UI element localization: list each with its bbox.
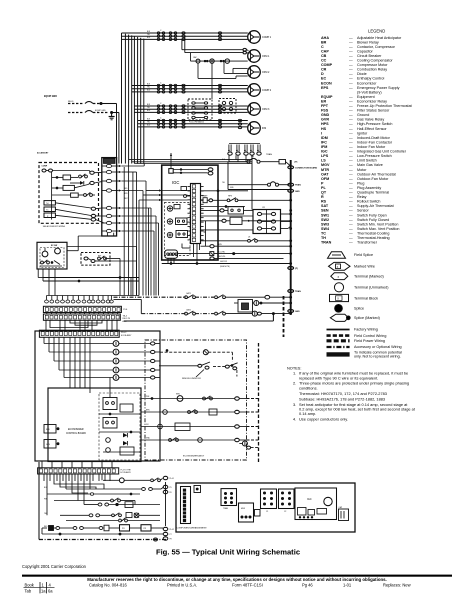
wire OFM2 route c <box>233 68 248 73</box>
plug strip PL6-2 <box>39 330 132 337</box>
svg-text:QT: QT <box>321 191 327 195</box>
svg-text:4: 4 <box>49 582 52 587</box>
svg-text:BRN: BRN <box>146 409 150 411</box>
marked terminal <box>210 59 214 63</box>
svg-text:EQUIP GND: EQUIP GND <box>95 110 106 112</box>
svg-text:Switch Min. Vent Position: Switch Min. Vent Position <box>357 222 398 226</box>
bottom route 9 <box>101 474 103 480</box>
assy row 398 <box>141 394 235 402</box>
svg-text:Economizer: Economizer <box>357 81 377 85</box>
capacitor chain <box>191 53 248 62</box>
svg-text:—: — <box>349 109 353 113</box>
wire FPT out2 <box>95 247 137 296</box>
terminal block TB1 <box>102 158 117 236</box>
svg-text:Sensor: Sensor <box>357 209 369 213</box>
legend accessory wiring swatch <box>327 346 350 348</box>
svg-text:Supply-Air Thermostat: Supply-Air Thermostat <box>357 204 394 208</box>
bottom left rail <box>38 462 40 540</box>
sensor SPS <box>44 425 59 434</box>
EC contacts <box>40 260 62 266</box>
wire OFM2 route a <box>198 63 248 78</box>
svg-text:Contactor, Compressor: Contactor, Compressor <box>357 45 396 49</box>
assy label <box>183 455 205 458</box>
figure title <box>156 548 300 557</box>
svg-text:TRAN: TRAN <box>266 153 272 156</box>
svg-text:C: C <box>160 117 162 119</box>
svg-text:—: — <box>349 241 353 245</box>
board wires <box>90 378 140 453</box>
svg-text:BLU: BLU <box>147 110 151 112</box>
wire OAT box <box>234 301 291 306</box>
svg-text:PR: PR <box>122 528 125 530</box>
contactor C2 block <box>279 489 295 513</box>
controller IGC box <box>162 165 218 260</box>
legend factory wiring swatch <box>327 329 350 331</box>
svg-text:Replaces: New: Replaces: New <box>383 582 411 587</box>
svg-text:P6: P6 <box>170 492 172 494</box>
wire h1 drop <box>131 278 139 296</box>
svg-text:Terminal Block: Terminal Block <box>354 296 378 300</box>
svg-text:ECONOMIZER: ECONOMIZER <box>68 429 84 431</box>
ground GND <box>109 113 115 120</box>
routing wire Cr <box>50 320 88 327</box>
svg-text:LPS: LPS <box>321 154 329 158</box>
footer block <box>22 575 452 594</box>
motor OFM 3 <box>248 103 270 116</box>
svg-text:GND: GND <box>295 311 300 313</box>
svg-text:CR: CR <box>262 207 265 209</box>
switch SW1 <box>159 362 210 369</box>
svg-text:—: — <box>349 127 353 131</box>
wire to connection board <box>286 162 291 166</box>
bottom v42 <box>41 528 43 534</box>
svg-text:Plug Assembly: Plug Assembly <box>357 186 381 190</box>
svg-text:EC: EC <box>321 77 326 81</box>
svg-text:—: — <box>349 40 353 44</box>
svg-text:AHA: AHA <box>321 36 329 40</box>
assy row 427 <box>141 423 235 431</box>
capacitor block <box>194 486 201 493</box>
splice on L2 <box>111 111 113 113</box>
terminal OAT1 <box>265 295 291 299</box>
svg-text:1.: 1. <box>293 371 296 376</box>
wires/contactor to COMP 2 <box>132 82 248 93</box>
plug PL12 <box>219 99 236 114</box>
terminals at IFM <box>238 119 241 128</box>
bottom row 534 <box>42 533 163 535</box>
svg-text:(SEE NOTE): (SEE NOTE) <box>220 266 230 268</box>
svg-text:—: — <box>349 140 353 144</box>
svg-text:Main Gas Valve: Main Gas Valve <box>357 163 383 167</box>
svg-text:(P): (P) <box>295 161 298 163</box>
capacitor CAP block <box>339 506 349 521</box>
svg-text:SEE ACCESSORY WIRING: SEE ACCESSORY WIRING <box>43 225 66 228</box>
svg-text:Marked Wire: Marked Wire <box>354 264 375 268</box>
svg-text:BRN: BRN <box>124 193 128 195</box>
contactor C1 block <box>261 489 277 513</box>
svg-text:Thermostat-Heating: Thermostat-Heating <box>357 236 390 240</box>
small block IFC <box>255 510 261 517</box>
svg-text:TC: TC <box>321 232 326 236</box>
svg-text:LS: LS <box>248 236 251 238</box>
svg-text:OAT1: OAT1 <box>186 292 191 295</box>
svg-text:Field Control Wiring: Field Control Wiring <box>354 334 386 338</box>
svg-text:Outdoor-Air Thermostat: Outdoor-Air Thermostat <box>357 172 396 176</box>
accessory vertical dash <box>283 296 285 337</box>
bottom bus <box>165 482 167 526</box>
terminal strip TB4 <box>43 314 130 323</box>
relay CR wires <box>281 214 291 229</box>
wire above IGC 3 <box>134 163 252 165</box>
assy row 440 <box>141 437 235 442</box>
bottom terminal pair <box>103 478 163 483</box>
svg-text:—: — <box>349 63 353 67</box>
svg-text:—: — <box>349 177 353 181</box>
marked wire econ 4 <box>91 214 102 217</box>
IGC interior input wires <box>162 191 191 201</box>
bus labels <box>295 161 318 313</box>
assy terminal 412 <box>235 410 240 413</box>
wire row 210 <box>201 207 254 214</box>
wire EC out1 <box>67 246 137 248</box>
IGC relay K1 <box>176 218 188 225</box>
svg-text:—: — <box>349 172 353 176</box>
legend terminal block symbol <box>330 294 349 301</box>
svg-text:Indoor Fan Motor: Indoor Fan Motor <box>357 145 386 149</box>
wire TB1-7 <box>121 222 158 224</box>
svg-text:YEL: YEL <box>147 87 150 89</box>
svg-text:Economizer Relay: Economizer Relay <box>357 100 387 104</box>
svg-text:—: — <box>349 222 353 226</box>
wires/contactor to IFM <box>138 117 248 128</box>
svg-text:CAP: CAP <box>321 49 329 53</box>
svg-text:Book: Book <box>25 582 35 587</box>
assy row 352 <box>160 350 232 362</box>
svg-text:C: C <box>160 30 162 32</box>
thermostat OAT box <box>238 300 253 313</box>
bus terminals <box>288 166 294 313</box>
wire TB1-3 <box>121 181 161 192</box>
contactor C1 + wires to COMP 1 <box>122 30 248 41</box>
svg-text:OFM: OFM <box>321 177 329 181</box>
svg-text:ACCESSORY: ACCESSORY <box>37 151 49 154</box>
svg-text:—: — <box>349 204 353 208</box>
svg-text:RED: RED <box>124 188 128 190</box>
svg-text:Switch Fully Open: Switch Fully Open <box>357 213 387 217</box>
marked wire econ 5 <box>91 218 104 223</box>
svg-text:—: — <box>349 77 353 81</box>
EC inner dash <box>40 248 64 268</box>
svg-text:ER: ER <box>321 100 326 104</box>
svg-text:PL6: PL6 <box>123 309 128 311</box>
manifold wire2 <box>47 295 140 297</box>
IGC relay K2 <box>176 231 188 238</box>
field power wire L1 <box>68 101 101 104</box>
field power entry label <box>44 96 57 98</box>
svg-text:ECON: ECON <box>321 81 332 85</box>
IGC internal vertical <box>204 221 206 246</box>
svg-text:only. Not to represent wiring.: only. Not to represent wiring. <box>354 355 401 359</box>
assy accessory vertical <box>258 343 260 462</box>
wire TB to EC <box>78 233 114 251</box>
svg-text:Accessory or Optional Wiring: Accessory or Optional Wiring <box>354 345 402 349</box>
svg-text:COMP: COMP <box>42 166 48 168</box>
svg-text:Rollout Switch: Rollout Switch <box>357 200 380 204</box>
svg-text:P: P <box>321 181 324 185</box>
wire PR2 <box>151 527 163 529</box>
svg-text:conditions.: conditions. <box>299 385 318 390</box>
bottom row 520 <box>66 518 160 522</box>
svg-text:GRA: GRA <box>146 436 150 439</box>
svg-text:Circuit Breaker: Circuit Breaker <box>357 54 382 58</box>
wire QT1 a <box>173 169 207 171</box>
wire under IGC <box>162 263 291 265</box>
svg-text:—: — <box>349 131 353 135</box>
svg-text:X: X <box>338 276 340 279</box>
svg-text:Compressor Motor: Compressor Motor <box>357 63 388 67</box>
svg-text:—: — <box>349 145 353 149</box>
wire QT1 b <box>173 172 207 174</box>
svg-text:6a: 6a <box>48 589 53 594</box>
FPT terminals <box>84 256 106 263</box>
board dashed area <box>99 393 140 460</box>
IGC LED 2 <box>167 219 172 224</box>
marked wire econ 3 <box>91 207 102 210</box>
motor OFM 1 <box>248 50 270 63</box>
assy row 412 <box>141 409 235 415</box>
svg-text:Subbase: HH93AZ176, 178: Subbase: HH93AZ176, 178 and P272-1882, 1… <box>299 396 385 401</box>
circuit breaker CB1 <box>247 156 260 163</box>
svg-text:BLK: BLK <box>147 104 151 106</box>
svg-text:GND: GND <box>230 187 234 189</box>
svg-text:BLU-YEL: BLU-YEL <box>218 251 225 253</box>
svg-text:Plug: Plug <box>357 181 364 185</box>
IGC LED 3 <box>167 232 172 237</box>
svg-text:Use copper conductors only.: Use copper conductors only. <box>299 417 348 422</box>
wire FPT out1 <box>105 259 120 296</box>
terminal board strip <box>181 487 191 524</box>
svg-text:Tab: Tab <box>25 589 32 594</box>
IGC label <box>172 180 179 185</box>
svg-text:OAT2: OAT2 <box>186 309 191 312</box>
marked wire terminals <box>113 341 119 381</box>
svg-text:Printed in U.S.A.: Printed in U.S.A. <box>167 582 197 587</box>
bottom dash stub <box>154 538 158 541</box>
svg-text:Factory Wiring: Factory Wiring <box>354 328 378 332</box>
svg-text:—: — <box>349 168 353 172</box>
svg-text:—: — <box>349 95 353 99</box>
svg-text:Outdoor-Fan Motor: Outdoor-Fan Motor <box>357 177 389 181</box>
svg-text:Splice: Splice <box>354 307 364 311</box>
svg-text:—: — <box>349 54 353 58</box>
routing wire B <box>75 320 97 325</box>
assy note <box>182 370 204 380</box>
svg-text:Combustion Relay: Combustion Relay <box>357 68 387 72</box>
svg-text:SW3: SW3 <box>321 222 329 226</box>
econ dot a <box>56 177 58 189</box>
svg-text:COMPONENT ARRANGEMENT: COMPONENT ARRANGEMENT <box>177 526 208 529</box>
drop wires to board <box>70 337 90 388</box>
capacitor CAP 2 <box>225 59 229 63</box>
svg-text:BLK: BLK <box>147 31 151 33</box>
field splice row <box>45 296 114 304</box>
terminal IGC r1 <box>208 168 213 171</box>
wire EC down1 <box>37 269 39 278</box>
svg-text:Equipment: Equipment <box>357 95 375 99</box>
component arrangement box <box>176 483 355 532</box>
svg-text:—: — <box>349 118 353 122</box>
svg-text:WHT: WHT <box>124 198 128 200</box>
svg-text:YEL: YEL <box>44 513 47 515</box>
motor COMP 1 <box>248 31 272 44</box>
svg-text:TRAN: TRAN <box>223 507 229 510</box>
board diode d1 <box>123 433 127 437</box>
wire TB1-4 <box>121 191 161 197</box>
svg-text:—: — <box>349 36 353 40</box>
bottom route 4 <box>72 474 88 493</box>
assy terminal 398 <box>235 397 240 400</box>
svg-text:—: — <box>349 122 353 126</box>
TB1 terminals <box>102 164 117 232</box>
svg-text:VIO: VIO <box>146 424 150 426</box>
svg-text:—: — <box>349 227 353 231</box>
terminal OAT2 <box>252 311 290 316</box>
svg-text:Terminal (Unmarked): Terminal (Unmarked) <box>354 286 388 290</box>
svg-text:Form 48TF-C1SI: Form 48TF-C1SI <box>232 582 263 587</box>
wire TB1-5 <box>121 207 151 209</box>
svg-text:IGNITOR: IGNITOR <box>220 261 228 263</box>
svg-text:PL4 TO THE: PL4 TO THE <box>121 469 132 471</box>
board comp a <box>120 404 133 412</box>
svg-text:Filter Status Sensor: Filter Status Sensor <box>357 109 390 113</box>
economizer accessory box <box>37 151 99 223</box>
legend field control wiring swatch <box>327 334 350 337</box>
svg-text:CB: CB <box>251 156 254 158</box>
svg-text:—: — <box>349 100 353 104</box>
econ comp c2 <box>52 193 84 197</box>
svg-text:CC: CC <box>321 59 327 63</box>
svg-text:Emergency Power Supply: Emergency Power Supply <box>357 86 400 90</box>
legend field power wiring swatch <box>327 339 350 342</box>
svg-text:TB-4: TB-4 <box>123 316 128 318</box>
terminal row 246 <box>201 244 291 248</box>
wire CB1 to bus <box>260 161 279 163</box>
svg-text:IFM: IFM <box>262 127 266 130</box>
svg-text:Ground: Ground <box>357 113 369 117</box>
svg-text:Relay: Relay <box>357 195 367 199</box>
svg-text:P8: P8 <box>170 539 172 541</box>
svg-text:(9-Volt Battery): (9-Volt Battery) <box>357 90 382 94</box>
svg-text:WHT-YEL: WHT-YEL <box>218 256 226 258</box>
svg-text:Enthalpy Control: Enthalpy Control <box>357 77 384 81</box>
marked wire econ 1 <box>90 171 102 175</box>
svg-text:COMP 1: COMP 1 <box>262 36 272 39</box>
bottom row 489 <box>66 487 163 490</box>
relay box R <box>44 213 91 219</box>
svg-text:D: D <box>321 72 324 76</box>
svg-text:Fig. 55 — Typical Unit Wiring: Fig. 55 — Typical Unit Wiring Schematic <box>156 548 300 557</box>
svg-text:Thermostat: HH07AT170, 172,: Thermostat: HH07AT170, 172, 174 and P272… <box>299 391 387 396</box>
motor IFM <box>248 122 266 135</box>
wire color labels mid <box>124 159 234 200</box>
marked wire leads <box>44 337 160 379</box>
wire disconnect to bundle 2 <box>112 112 119 114</box>
wire row 216 <box>201 215 254 217</box>
strip interconnect wires <box>47 313 118 315</box>
wire drop to OFM1 b <box>185 36 249 54</box>
svg-text:—: — <box>349 232 353 236</box>
TB1 connectors <box>117 165 122 232</box>
svg-text:Hall-Effect Sensor: Hall-Effect Sensor <box>357 127 387 131</box>
strip PL4 stubs <box>42 461 112 468</box>
motor COMP 2 <box>248 84 272 97</box>
svg-text:OFM 2: OFM 2 <box>262 71 270 74</box>
IGC internal dashed box <box>164 203 190 256</box>
wire TB1-6 <box>121 215 156 217</box>
wire row 206 <box>201 206 246 208</box>
svg-text:—: — <box>349 195 353 199</box>
svg-text:Integrated Gas Unit Controller: Integrated Gas Unit Controller <box>357 150 407 154</box>
svg-text:—: — <box>349 213 353 217</box>
svg-text:—: — <box>349 68 353 72</box>
svg-text:3 AMP: 3 AMP <box>202 194 208 197</box>
IGC comp small <box>174 205 180 209</box>
svg-text:REMOVE JUMPER W1: REMOVE JUMPER W1 <box>182 378 201 380</box>
svg-text:C: C <box>321 45 324 49</box>
svg-text:—: — <box>349 72 353 76</box>
svg-text:—: — <box>349 150 353 154</box>
svg-text:EPS: EPS <box>321 86 329 90</box>
svg-text:COMP: COMP <box>321 63 333 67</box>
svg-text:MTR: MTR <box>321 168 329 172</box>
gas valve MGV block <box>239 503 254 522</box>
wire TB1-8 <box>121 230 154 232</box>
terminal EC2 <box>55 248 61 254</box>
wire TB1-1 <box>121 164 144 167</box>
svg-text:OFM 3: OFM 3 <box>262 108 270 111</box>
svg-text:ECONOMIZER ASSY: ECONOMIZER ASSY <box>183 455 205 458</box>
svg-text:CR: CR <box>321 68 327 72</box>
switch HPS <box>227 196 291 202</box>
wire EC down4 <box>54 269 56 296</box>
svg-text:HPS: HPS <box>228 196 233 198</box>
svg-text:Motor: Motor <box>357 168 367 172</box>
svg-text:—: — <box>349 136 353 140</box>
bottom route 8 <box>89 474 91 489</box>
svg-text:Switch Fully Closed: Switch Fully Closed <box>357 218 389 222</box>
svg-text:2.: 2. <box>293 381 296 386</box>
bus bottom wire <box>124 313 274 321</box>
svg-text:Ignitor: Ignitor <box>357 131 368 135</box>
svg-text:TRAN: TRAN <box>321 241 332 245</box>
wire EC down2 <box>42 269 44 281</box>
svg-text:IFM: IFM <box>321 145 327 149</box>
svg-text:IDM: IDM <box>321 136 328 140</box>
potentiometer terminals <box>42 169 90 172</box>
svg-text:Indoor-Fan Contactor: Indoor-Fan Contactor <box>357 140 393 144</box>
enthalpy control EC <box>37 242 67 269</box>
wire bundle power left <box>117 33 144 164</box>
wire to CB2 <box>228 162 268 190</box>
economizer section box <box>35 331 160 461</box>
wire PR <box>130 527 142 529</box>
legend field splice symbol <box>328 252 346 258</box>
bottom route 7 <box>83 474 85 505</box>
legend splice symbol <box>335 304 343 312</box>
wire IGC input 3 <box>139 199 162 296</box>
wire disconnect to bundle 1 <box>101 103 117 105</box>
svg-text:IFC: IFC <box>321 140 327 144</box>
